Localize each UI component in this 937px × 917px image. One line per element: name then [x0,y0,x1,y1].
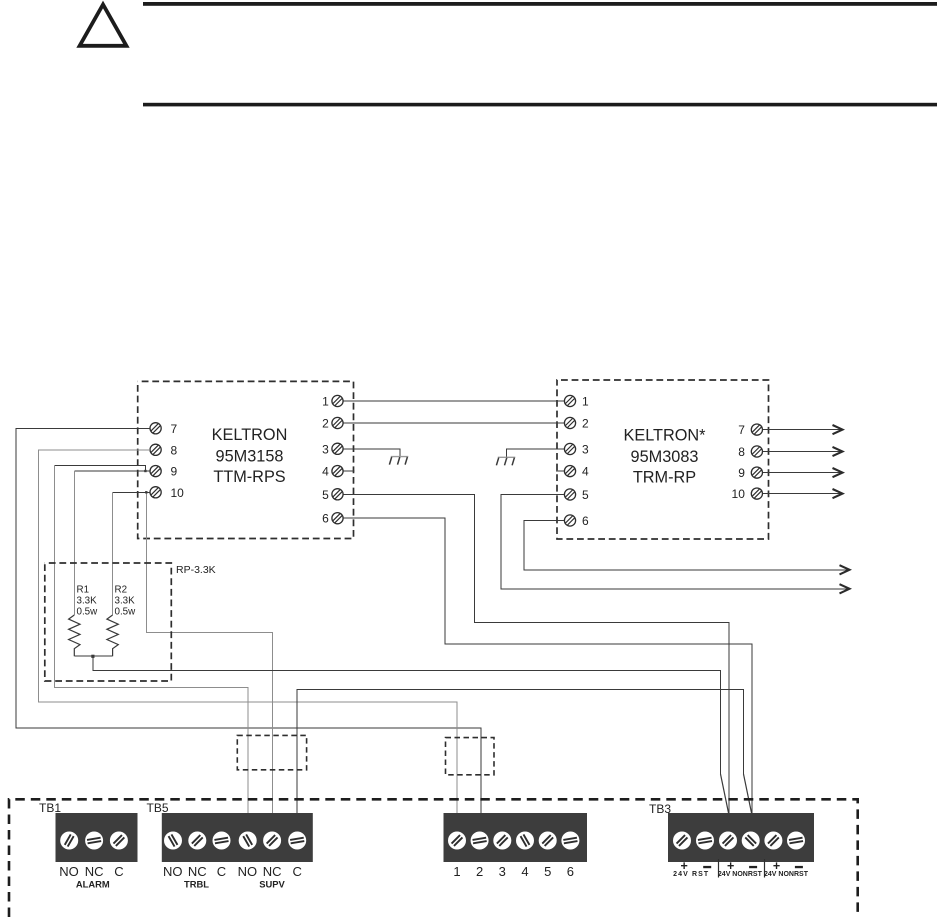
arrowhead pin10 out [833,489,843,498]
svg-text:NC: NC [263,864,282,879]
svg-text:24V NONRST: 24V NONRST [764,871,809,878]
svg-text:8: 8 [738,445,745,459]
svg-text:8: 8 [171,443,178,457]
caution triangle [80,5,127,46]
svg-text:TB5: TB5 [147,801,169,815]
U1 terminal 9 [150,466,161,477]
resistor pack box RP-3.3K [45,563,172,681]
TB3 label separator [764,859,766,878]
junction pin10 [145,491,147,493]
svg-text:3: 3 [582,443,589,457]
wire resistor tap to TB3 nonrst plus [93,656,721,774]
U2 terminal 2 [564,417,575,428]
svg-text:5: 5 [544,864,551,879]
U2 terminal 4 [564,466,575,477]
module U2 box KELTRON TRM-RP [557,380,769,539]
svg-text:1: 1 [322,395,329,409]
resistor R2 [107,615,118,656]
terminal block TB1 [56,813,138,862]
svg-text:NO: NO [59,864,79,879]
wire U1 pin8 to TB2 pin1 [38,450,456,814]
wire R1 R2 bottom join [74,655,112,657]
svg-text:9: 9 [171,465,178,479]
svg-text:0.5w: 0.5w [115,607,137,618]
svg-text:4: 4 [322,465,329,479]
wire U2 pin3 to ground [507,449,564,458]
svg-text:3.3K: 3.3K [115,596,136,607]
svg-text:6: 6 [567,864,574,879]
U2 terminal 6 [564,515,575,526]
wire U2 pin10 output arrow [763,493,840,495]
junction resistor tap [91,655,94,658]
wire U2 pin7 output arrow [763,429,840,431]
svg-text:NC: NC [188,864,207,879]
U2 terminal 10 [751,488,762,499]
TB3 label separator [718,859,720,878]
svg-text:C: C [114,864,123,879]
U2 terminal 9 [751,467,762,478]
wire U1 pin6 to TB3 nonrst minus [343,518,752,813]
wire TB5 supv C to TB3 nonrst minus [297,690,744,814]
svg-text:1: 1 [453,864,460,879]
top rule 2 [143,103,937,107]
U1 terminal 1 [332,395,343,406]
wire U1 pin10 to resistor R2 [113,491,151,493]
U1 terminal 7 [150,423,161,434]
U1 terminal 3 [332,443,343,454]
svg-text:6: 6 [322,512,329,526]
svg-text:RP-3.3K: RP-3.3K [176,564,216,576]
wire U1 pin2 to U2 pin2 [343,422,564,424]
svg-text:0.5w: 0.5w [77,607,99,618]
U1 terminal 4 [332,466,343,477]
svg-text:7: 7 [738,423,745,437]
U1 terminal 6 [332,513,343,524]
wire U1 pin5 to TB3 nonrst plus [343,494,729,813]
svg-text:7: 7 [171,422,178,436]
arrowhead pin5 out [840,584,850,593]
wire U2 pin6 output arrow [524,521,847,570]
svg-text:ALARM: ALARM [76,878,110,889]
junction pin9 [144,470,146,472]
svg-text:95M3083: 95M3083 [631,448,699,466]
wire U2 pin9 output arrow [763,472,840,474]
U1 terminal 8 [150,444,161,455]
svg-text:10: 10 [732,487,746,501]
svg-text:C: C [293,864,302,879]
U2 terminal 8 [751,446,762,457]
svg-text:C: C [217,864,226,879]
svg-text:TB3: TB3 [649,802,671,816]
wire U1 pin1 to U2 pin1 [343,400,564,402]
ground chassis left [389,457,408,465]
wire U1 pin10 to TB5 supv NC [146,492,272,813]
svg-text:SUPV: SUPV [259,878,285,889]
svg-text:KELTRON: KELTRON [212,426,288,444]
ground chassis right [496,457,515,465]
svg-text:3: 3 [322,442,329,456]
svg-text:10: 10 [171,486,185,500]
resistor R1 [69,615,80,656]
arrowhead pin6 out [840,565,850,574]
U1 terminal 2 [332,417,343,428]
svg-text:NO: NO [238,864,258,879]
wire U1 pin7 to TB2 pin2 [16,428,481,813]
svg-text:2: 2 [476,864,483,879]
wire U1 pin3 to ground [343,449,400,457]
wire stub U1 pin4 [343,470,354,472]
svg-text:24V NONRST: 24V NONRST [718,871,763,878]
svg-text:NO: NO [163,864,183,879]
conduit box 1 [237,735,306,769]
arrowhead pin8 out [833,447,843,456]
svg-text:2: 2 [582,417,589,431]
svg-text:3: 3 [499,864,506,879]
wire stub U2 pin4 [556,470,564,472]
terminal block TB5 [162,813,313,862]
wire U1 pin9 to TB5 supv NO [55,465,146,471]
svg-text:5: 5 [582,488,589,502]
svg-text:TRM-RP: TRM-RP [633,468,696,486]
svg-text:R1: R1 [77,585,90,596]
svg-text:KELTRON*: KELTRON* [623,427,706,445]
svg-text:2: 2 [322,417,329,431]
top rule 1 [143,2,937,6]
svg-text:TRBL: TRBL [184,878,209,889]
wire U2 pin5 output arrow [501,495,847,589]
svg-text:4: 4 [582,465,589,479]
wire U1 pin9 to resistor R1 [74,470,150,472]
panel boundary dashed box [9,799,858,917]
terminal block TB3 [668,813,814,862]
U2 terminal 1 [564,395,575,406]
svg-text:TTM-RPS: TTM-RPS [213,468,285,486]
U2 terminal 3 [564,443,575,454]
svg-text:3.3K: 3.3K [77,596,98,607]
terminal block TB2 [444,813,588,862]
wire U2 pin8 output arrow [763,451,840,453]
svg-text:NC: NC [85,864,104,879]
arrowhead pin9 out [833,468,843,477]
svg-text:4: 4 [521,864,528,879]
U1 terminal 10 [150,487,161,498]
svg-text:6: 6 [582,514,589,528]
U2 terminal 7 [751,424,762,435]
svg-text:95M3158: 95M3158 [216,447,284,465]
svg-text:R2: R2 [115,585,128,596]
svg-text:9: 9 [738,466,745,480]
U1 terminal 5 [332,489,343,500]
svg-text:TB1: TB1 [39,801,61,815]
arrowhead pin7 out [833,425,843,434]
conduit box 2 [446,738,495,775]
svg-text:5: 5 [322,488,329,502]
svg-text:24V RST: 24V RST [673,871,709,878]
svg-text:1: 1 [582,395,589,409]
U2 terminal 5 [564,489,575,500]
module U1 box KELTRON TTM-RPS [138,381,354,538]
